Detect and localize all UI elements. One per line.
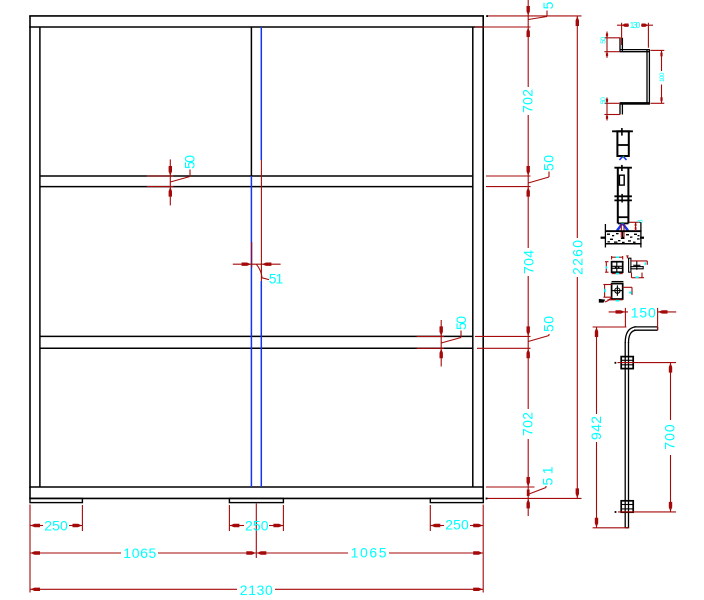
bar bend outer — [625, 327, 636, 343]
bracket3 solid leader arrow — [599, 299, 605, 303]
mullion section cap line — [614, 167, 632, 169]
dimension 51 center: arrows — [242, 263, 272, 266]
dimension 100: arrows — [660, 51, 662, 103]
svg-text:942: 942 — [588, 416, 604, 440]
anchor chevron blue — [617, 223, 628, 230]
c-channel bottom flange thick — [620, 102, 650, 105]
dimension 1065 right: arrows — [257, 551, 483, 554]
chain extension line y=27 — [475, 26, 531, 28]
clamp 1 inner lines — [621, 359, 633, 361]
svg-text:5: 5 — [540, 1, 556, 9]
inner right jamb line — [472, 27, 474, 487]
bracket2 cross mark — [636, 261, 638, 270]
dimension 50 lower leader — [528, 334, 549, 342]
dimension 5 leader — [528, 11, 547, 20]
extension line x=229.4 — [228, 505, 230, 531]
dimension 100 right of c-channel: extension lines — [651, 49, 665, 51]
dimension 1065 right: line — [256, 552, 348, 554]
bracket3 cross and circle — [612, 285, 622, 296]
extension line red over mullion right line — [260, 160, 262, 281]
bracket2 horizontal arm — [631, 267, 643, 269]
concrete hatch speckles — [607, 233, 640, 243]
chain extension line y=498.4 long — [487, 497, 582, 499]
extension line x=430.3 — [429, 505, 431, 531]
dimension 150: extension lines — [624, 308, 626, 328]
extension line x=30 — [29, 505, 31, 593]
dimension 50 mullion1: arrows — [169, 166, 172, 197]
bracket1 inner lines — [612, 265, 623, 267]
svg-text:3: 3 — [638, 219, 645, 223]
mullion 1 top line — [40, 175, 473, 177]
chain extension line y=186.6 — [486, 186, 531, 188]
dimension 942: arrows — [595, 327, 598, 527]
dimension 50 mullion2: dim line — [440, 320, 442, 367]
svg-text:50: 50 — [453, 316, 469, 330]
dimension 51 center: leader — [256, 264, 269, 279]
c-channel top lip double line — [619, 38, 621, 52]
dimension 250 left: arrows — [31, 524, 83, 527]
node dot at start of top extension — [486, 15, 488, 17]
chain extension line y=15.9 long — [487, 15, 582, 17]
dimension 50 mullion2: extension lines — [417, 335, 444, 337]
clamp 1 center dot — [615, 362, 617, 364]
dimension 50 mullion1: extension lines — [147, 175, 174, 177]
anchor rod red lines — [621, 224, 624, 238]
svg-text:50: 50 — [540, 155, 556, 171]
bar bend inner — [629, 330, 637, 343]
outer frame head line — [29, 15, 484, 17]
clamp 2 inner lines — [621, 504, 633, 506]
inner head line — [29, 26, 484, 28]
right foot — [430, 498, 483, 502]
mullion section joint lines — [614, 195, 632, 197]
dimension 50 mullion1: dim line — [169, 159, 171, 205]
dimension 50 top-left of c-channel — [604, 37, 620, 39]
bracket3 leader curve — [605, 297, 612, 302]
dimension 942: extension lines — [593, 326, 627, 328]
svg-text:50: 50 — [182, 155, 198, 169]
bracket1 black box — [612, 262, 623, 273]
head profile cap line — [612, 130, 633, 132]
dimension 250 right: arrows — [431, 524, 483, 527]
bracket2 red marks — [626, 256, 647, 278]
svg-text:1065: 1065 — [123, 545, 156, 561]
dimension 700: dim line — [670, 363, 672, 420]
svg-text:700: 700 — [662, 424, 678, 450]
dimension 1065 left: line — [30, 552, 121, 554]
dimension 2130: line — [30, 588, 237, 590]
svg-text:51: 51 — [540, 466, 556, 485]
center mullion right line blue upper part — [260, 27, 262, 160]
extension line x=483.2 — [482, 505, 484, 593]
concrete surface line — [605, 230, 641, 232]
dimension 51 chain leader — [529, 486, 546, 494]
center mullion left line black upper part — [250, 27, 252, 176]
bracket1 cyan ticks — [616, 256, 620, 258]
svg-text:702: 702 — [520, 412, 536, 436]
dimension 50 mullion2: arrows — [440, 326, 443, 358]
inner left jamb line — [39, 27, 41, 487]
dimension 150: arrows — [616, 310, 668, 313]
dimension 1065 left: arrows — [31, 551, 256, 554]
head profile top stub — [621, 128, 623, 136]
svg-text:51: 51 — [269, 270, 284, 286]
anchor rod black core — [622, 231, 624, 238]
dimension 942: dim line — [596, 327, 598, 414]
bracket3 red marks — [603, 285, 632, 300]
dimension 250 right: line — [430, 525, 444, 527]
concrete right edge — [640, 222, 642, 248]
chain extension line y=487 — [486, 486, 535, 488]
c-channel bottom lip double line — [619, 104, 621, 115]
mullion 2 top line — [40, 335, 473, 337]
dimension 130: dim line — [617, 24, 629, 26]
center foot — [229, 498, 283, 502]
concrete bottom line — [605, 243, 641, 245]
bracket2 vertical plate — [629, 258, 631, 272]
head profile anchor marks blue — [619, 157, 626, 160]
mullion 2 bottom line — [40, 347, 473, 349]
svg-text:50: 50 — [540, 316, 556, 332]
clamp 1 square — [621, 357, 633, 369]
svg-text:2130: 2130 — [240, 582, 273, 598]
chain arrows — [527, 6, 530, 508]
bar end cap — [657, 327, 659, 330]
head profile green node — [623, 156, 625, 158]
clamp 2 square — [621, 501, 633, 512]
dimension 2260 arrows — [576, 16, 579, 498]
svg-text:250: 250 — [445, 517, 469, 533]
left foot — [30, 498, 82, 502]
outer frame sill line — [29, 497, 484, 499]
dimension 250 center: arrows — [230, 524, 283, 527]
svg-text:150: 150 — [631, 305, 656, 321]
svg-text:702: 702 — [520, 89, 536, 113]
node dot at start of bottom extension — [486, 498, 488, 500]
svg-text:100: 100 — [659, 72, 666, 82]
center mullion left line blue lower part — [250, 176, 252, 487]
mullion section bottom line — [618, 222, 629, 224]
head profile body — [617, 131, 628, 156]
concrete mini dimension red — [630, 221, 641, 223]
mullion section top stub — [621, 165, 623, 171]
chain extension line y=176 — [486, 175, 531, 177]
dimension 250 left: line — [30, 525, 43, 527]
dimension 51 center mullion: dim line — [233, 263, 281, 265]
extension line red over mullion left line — [251, 242, 253, 268]
svg-text:704: 704 — [520, 250, 536, 274]
c-channel web double line — [646, 50, 648, 105]
anchor green node — [622, 222, 624, 224]
chain extension line y=348.3 — [477, 347, 531, 349]
bracket2 cyan ticks — [645, 262, 647, 264]
extension line x=82.4 — [81, 505, 83, 531]
bar top horizontal double line — [634, 326, 658, 328]
dimension 700: arrows — [669, 363, 672, 511]
concrete left edge — [604, 224, 606, 248]
svg-text:250: 250 — [245, 517, 269, 533]
head profile inner line — [617, 144, 628, 146]
bracket3 top plate double line — [612, 281, 624, 283]
dimension 50 upper leader — [528, 172, 549, 184]
dimension 150: dim line — [609, 311, 628, 313]
mullion section inner box — [619, 175, 624, 185]
outer frame right jamb — [482, 16, 484, 499]
svg-text:250: 250 — [44, 517, 68, 533]
outer frame left jamb — [29, 16, 31, 499]
svg-text:2260: 2260 — [570, 240, 586, 275]
concrete break tick right — [640, 237, 644, 239]
concrete break tick left — [601, 237, 606, 239]
clamp 2 center dot — [615, 511, 617, 513]
mullion 1 bottom line — [40, 186, 473, 188]
chain extension line y=336.4 — [475, 335, 531, 337]
mullion section joint stub — [621, 194, 623, 203]
svg-text:50: 50 — [600, 37, 607, 44]
chain dimension line segments — [527, 0, 529, 87]
bracket3 black box — [612, 284, 623, 299]
mullion section body walls — [617, 168, 619, 224]
DIMENSION 2260 — [576, 16, 578, 238]
dimension 50 mullion1: leader — [170, 170, 190, 183]
dimension 250 center: line — [229, 525, 244, 527]
bracket3 cyan ticks — [604, 289, 606, 293]
dimension 2130: arrows — [31, 588, 483, 591]
dimension 100: dim line — [661, 50, 663, 71]
svg-text:1065: 1065 — [351, 545, 387, 561]
dimension 700: extension lines — [618, 362, 677, 364]
bracket1 red marks — [605, 256, 623, 274]
center mullion right line blue lower part — [260, 281, 262, 487]
svg-text:130: 130 — [630, 21, 641, 30]
dimension 130: arrows — [622, 24, 648, 27]
dimension 50 bottom-left of c-channel — [604, 102, 620, 104]
bar vertical double line — [624, 342, 626, 528]
svg-text:50: 50 — [600, 97, 607, 104]
inner sill line — [29, 486, 484, 488]
extension line x=256.3 — [255, 504, 257, 559]
c-channel top flange double line — [620, 49, 650, 51]
dimension 50 mullion2: leader — [441, 331, 461, 344]
bar bottom cap — [625, 527, 628, 529]
dimension 130: extension lines — [621, 23, 623, 45]
extension line x=283.4 — [282, 505, 284, 531]
mullion section inner line low — [618, 216, 629, 218]
